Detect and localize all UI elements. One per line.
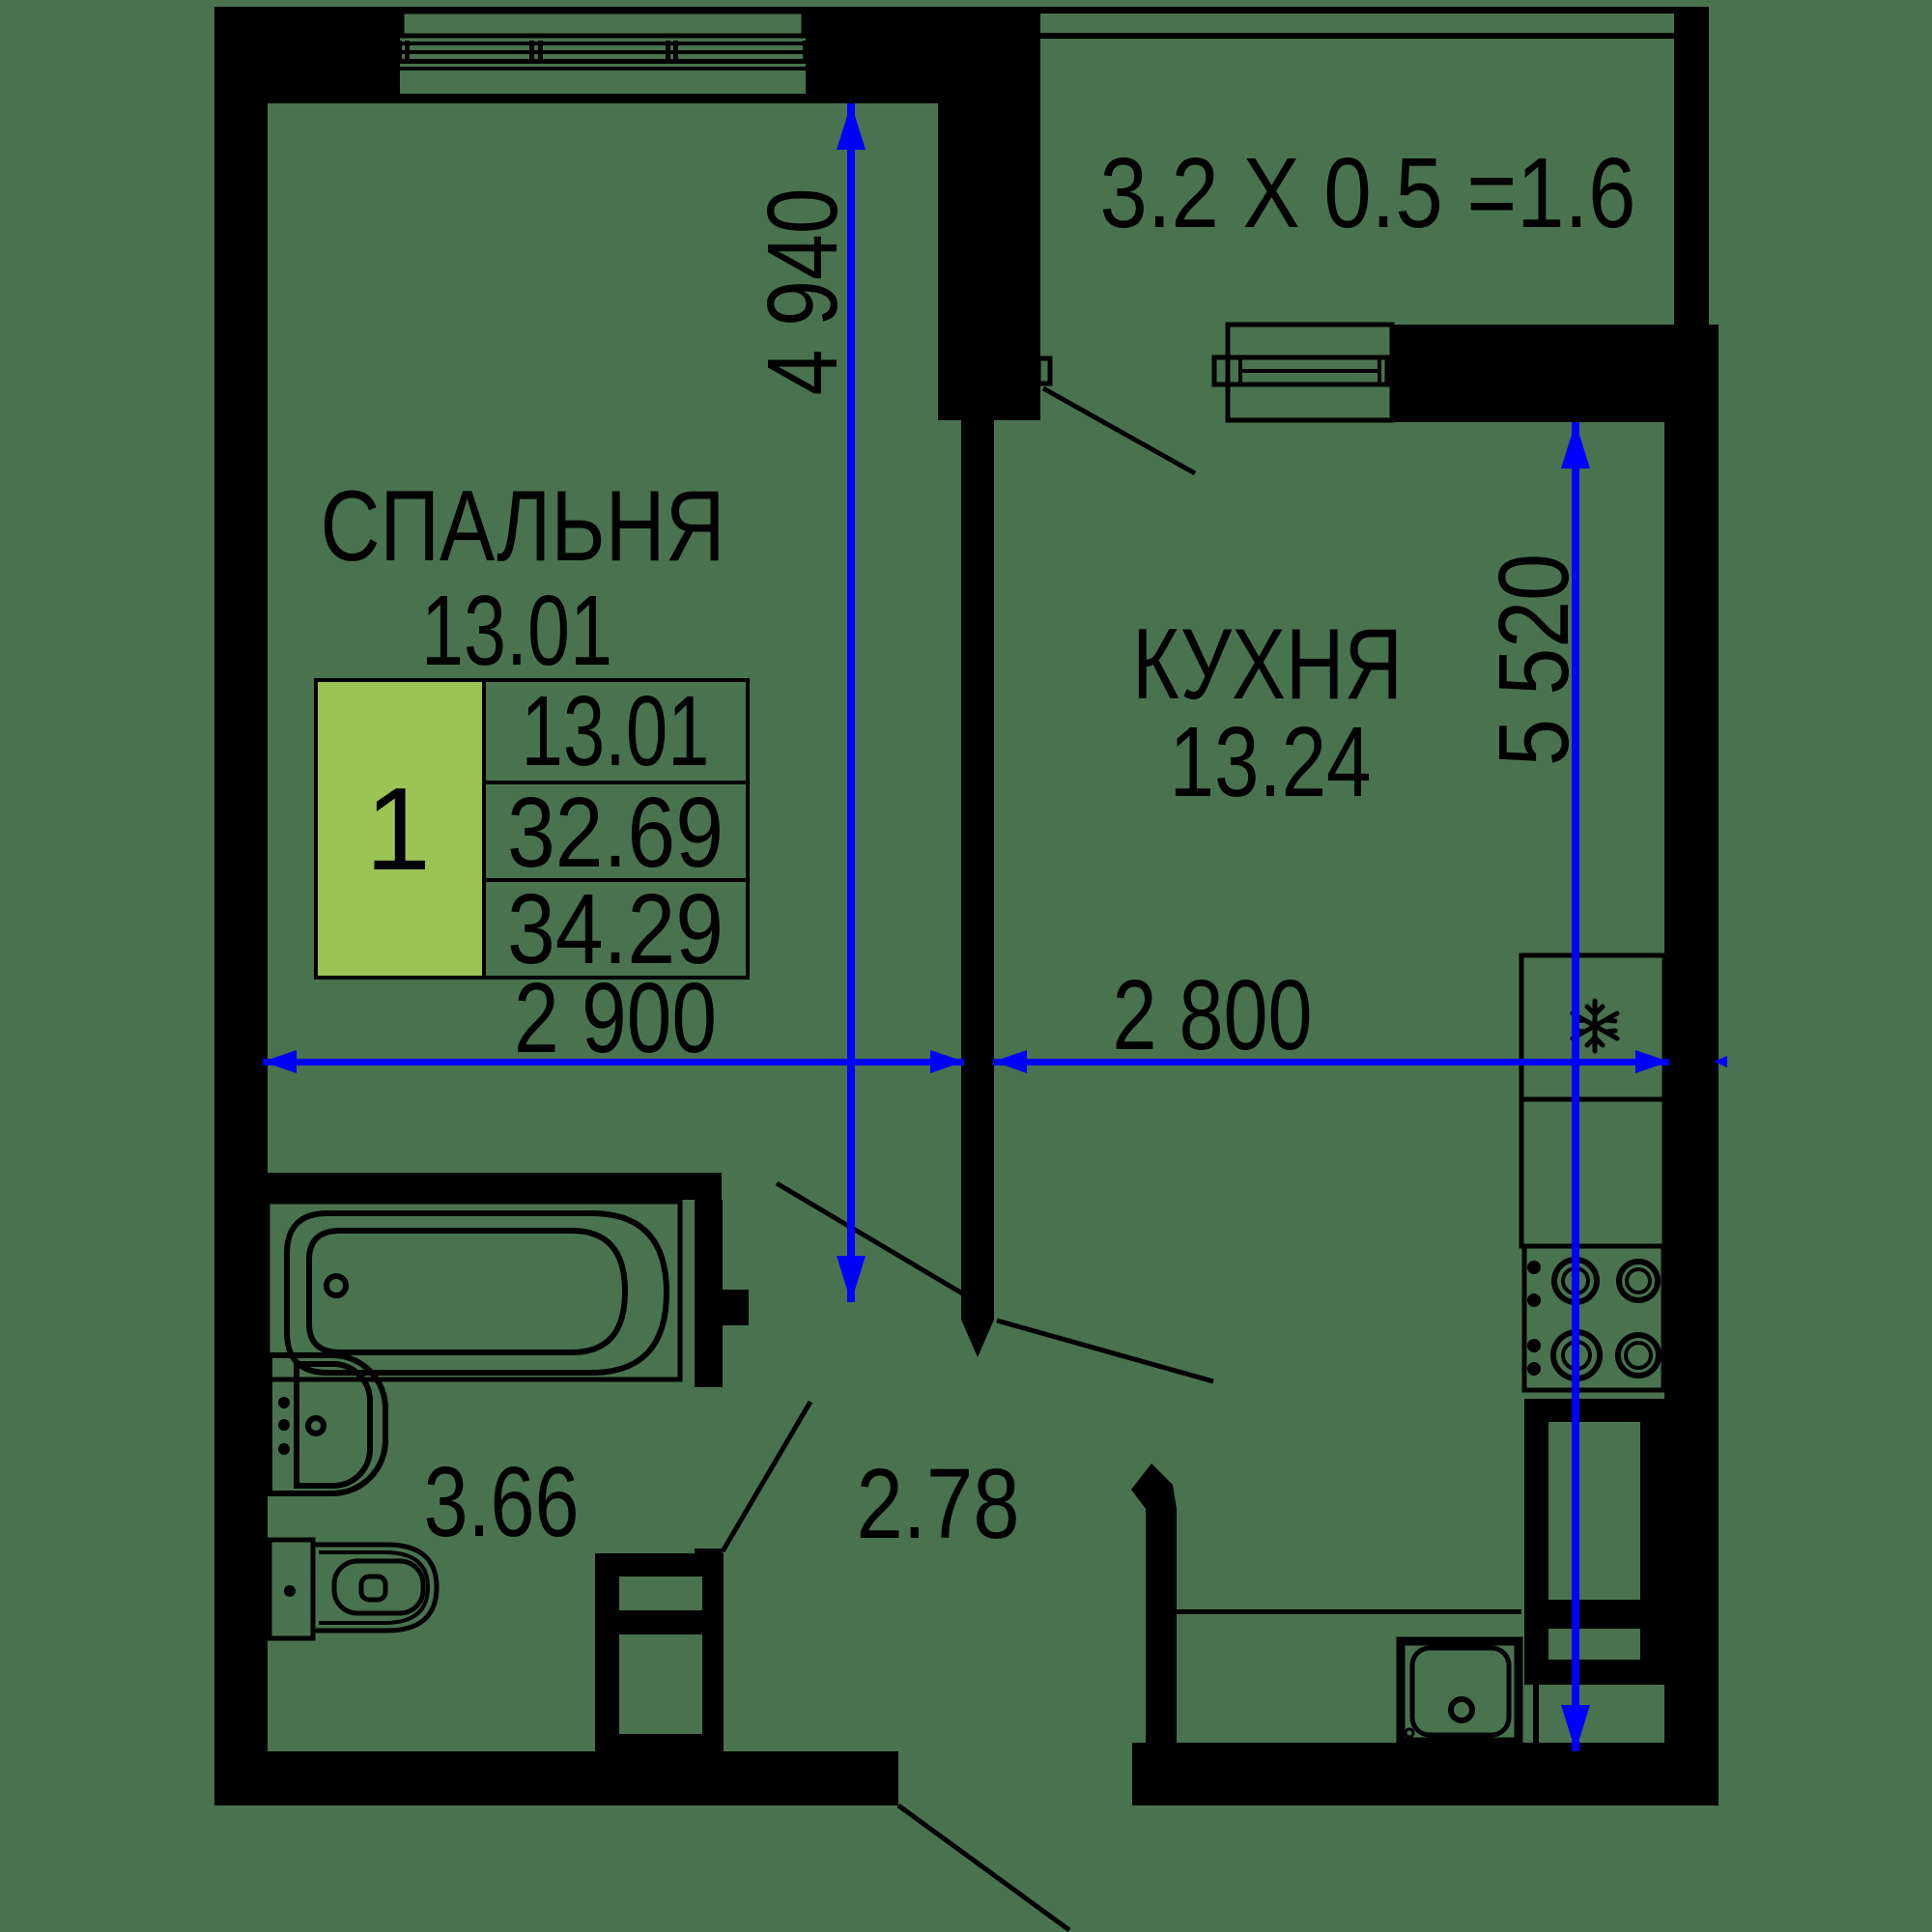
table row line 1 bbox=[484, 781, 748, 784]
wall east (outer) bbox=[1664, 325, 1719, 1805]
entry door swing line bbox=[898, 1805, 1069, 1930]
kitchen sink drain bbox=[1451, 1699, 1472, 1720]
balcony wall east bbox=[1674, 7, 1709, 327]
lower cabinet bbox=[1524, 1399, 1664, 1685]
table right column bbox=[484, 680, 748, 978]
svg-text:2.78: 2.78 bbox=[857, 1448, 1020, 1559]
wall bathroom north bbox=[268, 1173, 722, 1200]
entry door leaf bbox=[1131, 1463, 1177, 1751]
toilet tank bbox=[270, 1540, 313, 1638]
wall partition pointed end bbox=[961, 1320, 994, 1357]
wall kitchen/balcony black band bbox=[1392, 325, 1719, 422]
toilet bowl second line bbox=[319, 1552, 428, 1623]
wall left (outer west wall) bbox=[214, 7, 268, 1805]
window W2 divider right bbox=[1378, 357, 1381, 384]
wall bottom right (kitchen) bbox=[1132, 1743, 1719, 1805]
kitchen sink corner dot bbox=[1406, 1729, 1413, 1737]
window W1 frame bbox=[402, 12, 804, 36]
window W1 mullions bbox=[397, 41, 402, 64]
lower cabinet slot 1 bbox=[1548, 1422, 1640, 1600]
svg-text:2 800: 2 800 bbox=[1113, 959, 1313, 1070]
dim line horizontal 2900 bbox=[263, 1050, 964, 1073]
wall bottom left (hall) bbox=[214, 1751, 898, 1805]
svg-text:КУХНЯ: КУХНЯ bbox=[1132, 609, 1403, 721]
svg-text:13.01: 13.01 bbox=[522, 675, 710, 786]
bath sink outer bbox=[270, 1355, 385, 1493]
bathtub outer box bbox=[268, 1202, 680, 1379]
kitchen counter box bbox=[1521, 1099, 1664, 1246]
svg-text:2 900: 2 900 bbox=[514, 962, 717, 1073]
stove burner BL bbox=[1553, 1332, 1600, 1378]
stove burner TL bbox=[1554, 1260, 1597, 1302]
svg-text:13.24: 13.24 bbox=[1170, 706, 1372, 817]
bathtub rim bbox=[287, 1213, 667, 1373]
closet slot upper bbox=[619, 1577, 702, 1610]
window W2 divider left bbox=[1238, 357, 1242, 384]
bath sink basin bbox=[297, 1364, 370, 1486]
kitchen sink basin bbox=[1412, 1648, 1509, 1735]
svg-text:13.01: 13.01 bbox=[421, 575, 612, 686]
svg-text:1: 1 bbox=[365, 763, 431, 895]
stove box bbox=[1524, 1246, 1663, 1390]
dim line horizontal 2800 bbox=[993, 1050, 1669, 1073]
wall top (north wall of bedroom) bbox=[214, 7, 1040, 103]
stove burner TR bbox=[1619, 1262, 1658, 1300]
bathroom door swing line bbox=[723, 1402, 810, 1551]
counter connector line bbox=[1533, 1675, 1539, 1743]
window W1 rails bbox=[400, 42, 806, 45]
kitchen door swing line bbox=[777, 1183, 964, 1294]
window W2 sash band bbox=[1214, 357, 1387, 384]
balcony rail inner line bbox=[1040, 33, 1674, 39]
svg-text:32.69: 32.69 bbox=[507, 777, 724, 888]
stove burner BR bbox=[1618, 1335, 1659, 1376]
toilet bowl outer bbox=[313, 1545, 437, 1631]
wall column NE of bedroom bbox=[938, 103, 1040, 420]
closet body bbox=[595, 1553, 724, 1751]
bath sink faucet bbox=[308, 1418, 324, 1434]
window W2 (kitchen) outer frame bbox=[1228, 325, 1392, 420]
svg-text:СПАЛЬНЯ: СПАЛЬНЯ bbox=[321, 470, 725, 582]
window W2 mid line bbox=[1240, 369, 1379, 373]
closet slot lower bbox=[619, 1634, 702, 1734]
window W1 sill line bbox=[391, 67, 817, 71]
wall bedroom/kitchen partition bbox=[961, 420, 994, 1320]
window W1 inner line bbox=[391, 94, 817, 99]
bathroom door stub bbox=[723, 1290, 749, 1325]
svg-text:4 940: 4 940 bbox=[747, 188, 858, 396]
balcony door hinge square bbox=[1038, 358, 1050, 384]
table row line 2 bbox=[484, 878, 748, 882]
toilet bowl inner bbox=[334, 1561, 423, 1613]
balcony door swing line bbox=[1043, 388, 1195, 473]
lower cabinet slot 2 bbox=[1548, 1629, 1640, 1660]
counter front edge line bbox=[1177, 1609, 1521, 1614]
svg-text:3.66: 3.66 bbox=[424, 1446, 580, 1557]
fridge bbox=[1521, 955, 1664, 1099]
bathtub basin bbox=[309, 1231, 625, 1352]
kitchen sink outer bbox=[1401, 1641, 1519, 1742]
stove knobs bbox=[1527, 1261, 1541, 1274]
bathroom door tick bbox=[695, 1548, 723, 1553]
window W1 opening (bedroom) bbox=[400, 10, 806, 99]
toilet tank dot bbox=[284, 1585, 296, 1597]
fridge snowflake bbox=[1573, 1001, 1617, 1051]
dim arrow nub right of east wall bbox=[1714, 1056, 1727, 1067]
kitchen door swing line right bbox=[997, 1321, 1213, 1381]
bathtub drain bbox=[327, 1276, 346, 1295]
bath sink dots bbox=[278, 1397, 290, 1408]
table green square bbox=[316, 680, 484, 978]
toilet bowl center bbox=[361, 1577, 385, 1600]
svg-text:3.2 X 0.5 =1.6: 3.2 X 0.5 =1.6 bbox=[1100, 137, 1636, 248]
dim line vertical 4940 bbox=[837, 103, 866, 1302]
balcony rail outer line bbox=[1040, 7, 1674, 14]
wall bathroom east bbox=[695, 1200, 723, 1387]
dim line vertical 5520 bbox=[1561, 422, 1590, 1751]
